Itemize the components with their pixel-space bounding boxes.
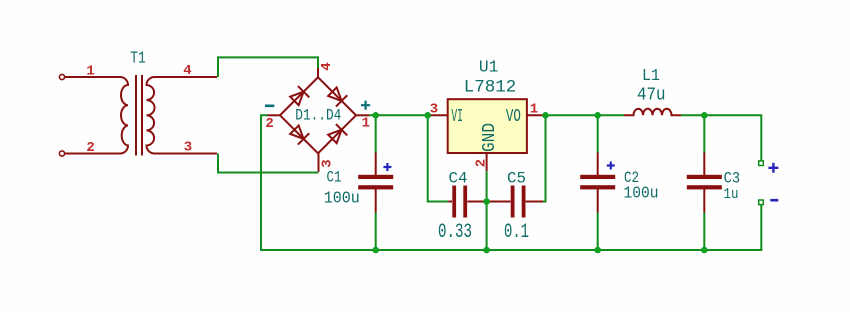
bridge diamond outline: [280, 77, 356, 153]
svg-text:0.33: 0.33: [438, 221, 472, 244]
svg-text:C4: C4: [449, 170, 468, 188]
svg-text:D1..D4: D1..D4: [295, 107, 341, 125]
svg-text:3: 3: [430, 102, 438, 118]
svg-text:VI: VI: [451, 107, 463, 127]
C4 pin stubs: [448, 201, 484, 203]
junction top rail at U1 pin1: [542, 112, 549, 119]
svg-text:1: 1: [86, 64, 94, 80]
svg-text:3: 3: [320, 159, 336, 167]
bridge pin 2 stub: [268, 114, 281, 116]
svg-text:C3: C3: [724, 169, 741, 187]
svg-text:100u: 100u: [624, 184, 659, 203]
junction bottom rail at C1: [372, 247, 379, 254]
wire C3 bottom branch: [703, 213, 705, 251]
svg-text:U1: U1: [479, 58, 499, 77]
U1 pin 1 stub: [527, 114, 546, 116]
bridge minus mark: [265, 105, 274, 108]
minus output terminal square: [759, 200, 764, 205]
plus output terminal square: [759, 161, 764, 166]
diode D lower-right: [327, 124, 348, 145]
svg-text:C5: C5: [507, 170, 526, 188]
svg-text:3: 3: [184, 140, 192, 156]
C4 plates: [452, 186, 456, 218]
junction top rail at C2: [594, 112, 601, 119]
transformer T1: [59, 74, 217, 156]
T1 primary winding: [65, 77, 129, 154]
C3 pin stubs: [703, 153, 705, 213]
C2 pin stubs: [597, 153, 599, 213]
svg-text:4: 4: [183, 63, 191, 79]
svg-text:1u: 1u: [724, 187, 739, 203]
bridge pin 4 stub: [317, 68, 319, 77]
C1 pin stubs: [375, 153, 377, 213]
junction bottom rail at C3: [701, 247, 708, 254]
wire top rail bridge to U1: [369, 114, 428, 116]
regulator U1 box: [448, 99, 527, 153]
C5 pin stubs: [489, 201, 543, 203]
capacitor C4: [448, 186, 484, 218]
svg-text:0.1: 0.1: [504, 221, 529, 244]
bridge pin 3 stub: [318, 153, 320, 172]
T1 secondary winding: [147, 77, 218, 154]
wire T1 pin3 to bridge bottom: [218, 154, 319, 173]
wire L1 to plus terminal: [681, 115, 761, 161]
junction bottom rail at C2: [594, 247, 601, 254]
svg-text:2: 2: [86, 140, 94, 156]
svg-text:2: 2: [265, 116, 273, 132]
wire bridge pin2 to bottom rail: [261, 115, 761, 250]
bridge pin 1 stub: [356, 114, 369, 116]
svg-text:T1: T1: [130, 49, 146, 68]
svg-text:1: 1: [530, 102, 538, 118]
svg-text:2: 2: [474, 159, 490, 167]
T1 core: [136, 75, 142, 156]
U1 pin 2 stub: [486, 153, 488, 171]
bridge rectifier D1..D4 diamond: [268, 68, 370, 172]
wire C3 top branch: [703, 115, 705, 152]
wire U1 pin3 down to C4: [428, 115, 449, 201]
capacitor C2: [580, 153, 615, 213]
C1 plates: [358, 175, 393, 179]
svg-text:L7812: L7812: [464, 77, 517, 97]
C3 plates: [687, 175, 722, 179]
junction bottom rail at GND: [483, 247, 490, 254]
C1 plus mark: [383, 163, 391, 171]
wire C1 bottom branch: [375, 213, 377, 251]
U1 pin 3 stub: [428, 114, 448, 116]
capacitor C3: [687, 153, 722, 213]
svg-text:C1: C1: [327, 169, 342, 187]
wire C2 bottom branch: [597, 213, 599, 251]
T1 pin 2 open end: [59, 151, 64, 156]
wire C1 top branch: [375, 115, 377, 152]
wire C5 up to U1 pin1: [543, 115, 546, 201]
diode D upper-right: [327, 86, 348, 107]
plus terminal mark: [768, 163, 778, 173]
C5 plates: [511, 186, 515, 218]
junction top rail at C1: [372, 112, 379, 119]
diode D lower-left: [289, 124, 310, 145]
wire GND branch: [486, 171, 488, 250]
minus terminal mark: [770, 199, 778, 202]
svg-text:47u: 47u: [637, 84, 666, 105]
junction top rail at C3: [701, 112, 708, 119]
inductor L1: [624, 109, 681, 116]
diode D upper-left: [289, 86, 310, 107]
bridge plus mark: [361, 101, 370, 110]
C2 plates: [580, 175, 615, 179]
junction top rail at U1 pin3: [424, 112, 431, 119]
wire C2 top branch: [597, 115, 599, 152]
wire top rail U1 to L1: [546, 114, 625, 116]
wire T1 pin4 to bridge top: [218, 57, 318, 77]
svg-text:GND: GND: [480, 123, 500, 152]
svg-text:1: 1: [362, 116, 370, 132]
svg-text:4: 4: [319, 62, 335, 70]
capacitor C5: [489, 186, 543, 218]
svg-text:L1: L1: [642, 66, 660, 85]
T1 pin 1 open end: [59, 74, 64, 79]
capacitor C1: [358, 153, 393, 213]
C2 plus mark: [607, 162, 615, 170]
svg-text:100u: 100u: [324, 189, 360, 208]
junction C4-C5 GND node: [483, 198, 490, 205]
svg-text:VO: VO: [506, 107, 521, 127]
